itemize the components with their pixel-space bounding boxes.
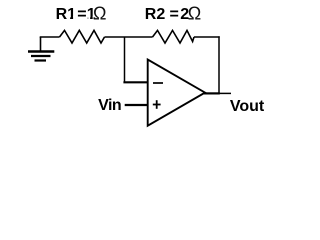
label R1 = 1 ohm	[56, 4, 107, 24]
svg-text:Vout: Vout	[230, 98, 265, 115]
svg-text:=: =	[77, 6, 86, 23]
op-amp U1	[148, 60, 205, 126]
op-amp U1 non-inverting input marker (+)	[153, 104, 161, 106]
wire R2 to top-right corner	[194, 36, 220, 38]
wire feedback vertical from node A	[124, 37, 126, 82]
svg-text:R2: R2	[145, 6, 166, 23]
svg-text:=: =	[170, 6, 179, 23]
svg-text:R1: R1	[56, 6, 77, 23]
wire Vin to non-inverting input	[125, 104, 148, 106]
wire output to Vout	[219, 92, 231, 94]
svg-text:Ω: Ω	[93, 4, 106, 24]
wire node A to R2	[125, 36, 153, 38]
wire feedback into inverting input	[123, 81, 148, 83]
op-amp U1 inverting input marker (-)	[153, 82, 163, 84]
wire R1 to node A	[105, 36, 125, 38]
wire op-amp output stub	[204, 92, 220, 94]
ground	[28, 37, 54, 61]
wire ground to R1	[40, 36, 60, 38]
svg-text:Ω: Ω	[188, 4, 201, 24]
label R2 = 2 ohm	[145, 4, 201, 24]
resistor R2	[153, 30, 195, 43]
svg-text:Vin: Vin	[98, 97, 121, 114]
resistor R1	[60, 30, 105, 43]
wire right vertical down to output node	[218, 36, 220, 93]
